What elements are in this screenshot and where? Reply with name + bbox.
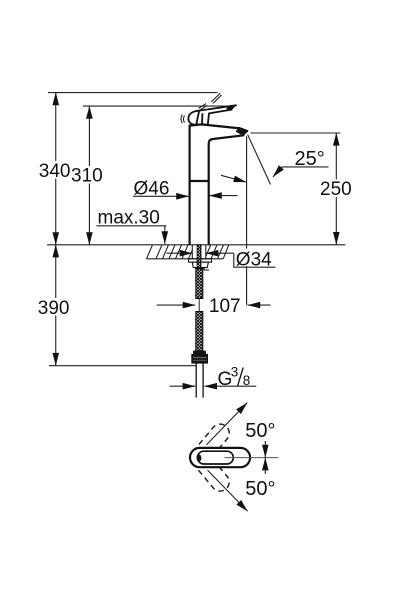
svg-text:3: 3 <box>231 364 239 379</box>
svg-text:max.30: max.30 <box>98 208 160 229</box>
svg-text:310: 310 <box>71 166 103 187</box>
svg-text:50°: 50° <box>245 478 275 500</box>
svg-text:50°: 50° <box>245 420 275 442</box>
svg-text:Ø34: Ø34 <box>236 250 272 271</box>
svg-text:25°: 25° <box>295 148 325 170</box>
svg-text:Ø46: Ø46 <box>134 178 170 199</box>
svg-text:250: 250 <box>320 179 352 200</box>
svg-text:340: 340 <box>39 161 71 182</box>
svg-text:8: 8 <box>243 373 251 388</box>
svg-text:390: 390 <box>38 298 70 319</box>
svg-text:107: 107 <box>209 296 241 317</box>
